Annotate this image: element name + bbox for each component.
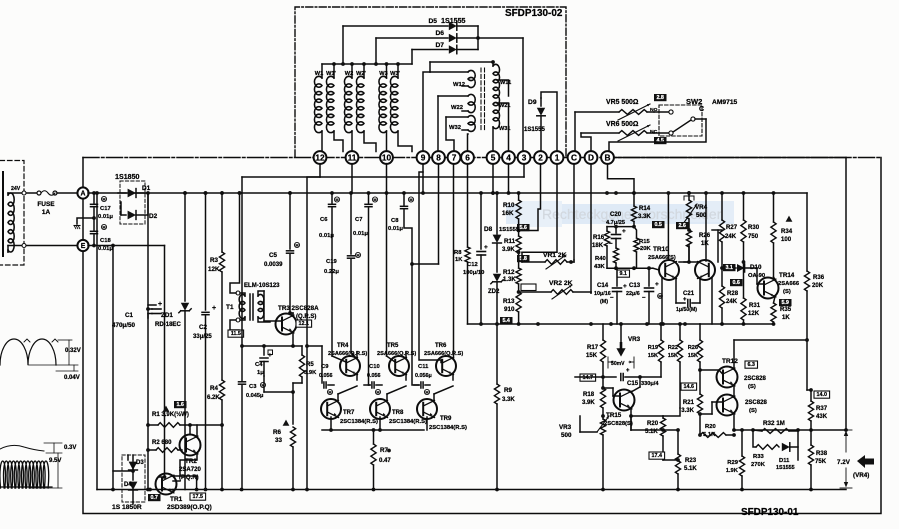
svg-text:2SC1384(R.S): 2SC1384(R.S) <box>389 419 427 425</box>
svg-text:TR4: TR4 <box>337 343 349 349</box>
transistor TR8 2SC1384 <box>370 399 390 419</box>
transistor TR2 2SA720 <box>180 435 201 456</box>
wire terminal 9 branch <box>419 172 441 363</box>
svg-text:M: M <box>328 389 331 394</box>
svg-text:W12: W12 <box>453 82 466 88</box>
wire rail y324 right <box>700 323 774 325</box>
svg-text:R23: R23 <box>685 458 697 464</box>
svg-text:2.8: 2.8 <box>656 95 664 101</box>
svg-text:1K: 1K <box>782 315 790 321</box>
svg-text:3.9K: 3.9K <box>582 400 595 406</box>
svg-text:5.9: 5.9 <box>781 300 789 306</box>
svg-text:75K: 75K <box>815 459 827 465</box>
svg-text:6.2K: 6.2K <box>207 395 220 401</box>
wire R5/C4 bottom to R6 <box>263 376 265 392</box>
diode D2 <box>121 214 126 216</box>
svg-text:+: + <box>622 228 626 235</box>
svg-text:17.5: 17.5 <box>193 494 204 500</box>
svg-text:D8: D8 <box>484 226 493 233</box>
winding W1 <box>321 64 323 78</box>
transformer primary W32 <box>446 116 468 118</box>
svg-text:R29: R29 <box>727 460 738 466</box>
svg-text:+: + <box>212 305 216 312</box>
wire term10 col <box>386 193 388 356</box>
svg-text:R26: R26 <box>688 345 698 351</box>
capacitor C19 0.22u <box>350 193 352 254</box>
svg-text:T1: T1 <box>226 304 234 311</box>
resistor R36 20K <box>806 193 808 271</box>
resistor R8 1K <box>467 164 469 247</box>
resistor R16 18K <box>606 227 608 231</box>
svg-text:R20: R20 <box>647 421 659 427</box>
svg-text:C2: C2 <box>199 324 208 331</box>
svg-text:2SA720: 2SA720 <box>179 467 201 473</box>
svg-text:C1: C1 <box>125 312 134 319</box>
svg-text:R36: R36 <box>813 275 825 281</box>
svg-text:6.3: 6.3 <box>747 362 755 368</box>
svg-text:W3': W3' <box>390 71 400 77</box>
svg-text:TR8: TR8 <box>392 410 404 416</box>
svg-text:R14: R14 <box>639 206 651 212</box>
wire TR3 emitter <box>292 332 294 346</box>
svg-text:0.22μ: 0.22μ <box>324 269 339 275</box>
svg-text:5.1K: 5.1K <box>684 466 697 472</box>
svg-text:R32 1M: R32 1M <box>763 420 785 427</box>
wire emitter rail TR7-9 <box>322 429 424 431</box>
voltage label 5.9 <box>779 299 792 306</box>
svg-text:W11: W11 <box>500 80 511 86</box>
svg-text:W1': W1' <box>326 71 336 77</box>
svg-text:R15: R15 <box>639 239 650 245</box>
svg-text:SFDP130-02: SFDP130-02 <box>505 8 563 19</box>
wire R1 node <box>190 424 222 426</box>
resistor R15 20K <box>634 227 637 238</box>
terminal 6 <box>461 151 474 164</box>
waveform ripple 0.32V <box>0 339 56 365</box>
svg-text:50mV: 50mV <box>611 361 625 367</box>
svg-text:D11: D11 <box>779 458 790 464</box>
transistor TR9 2SC1384 <box>417 399 437 419</box>
svg-text:3.3K: 3.3K <box>502 397 515 403</box>
svg-text:2SD389(O.P.Q): 2SD389(O.P.Q) <box>167 504 212 511</box>
svg-text:D: D <box>588 152 594 162</box>
wire TR3 collector <box>292 313 294 316</box>
transformer primary W12 <box>430 71 468 73</box>
resistor R26 1K <box>686 230 691 247</box>
svg-text:SFDP130-01: SFDP130-01 <box>741 507 799 518</box>
diode box D3 D4 1S1850R <box>122 455 145 502</box>
diode D5 1S1555 <box>343 25 448 27</box>
ground stub <box>77 218 94 224</box>
resistor R6 33 <box>283 420 290 426</box>
wire VR6 feed from D <box>581 133 591 152</box>
svg-text:B: B <box>605 152 611 162</box>
wire TR13 <box>712 401 723 403</box>
svg-text:E: E <box>81 243 86 250</box>
wire center rail y324 <box>468 323 701 325</box>
svg-text:C20: C20 <box>610 212 622 218</box>
wire TR6 legs <box>452 374 454 380</box>
diode D11 1S1555 <box>782 443 790 451</box>
wire D3D4 connect <box>132 502 134 504</box>
external transformer box <box>0 161 24 266</box>
svg-text:VR5 500Ω: VR5 500Ω <box>606 99 639 106</box>
wire winding taps to terminals <box>423 72 430 152</box>
svg-text:R34: R34 <box>781 229 793 235</box>
resistor R7 0.47 <box>371 444 376 465</box>
diode D1 <box>118 192 126 194</box>
svg-text:R12: R12 <box>503 269 515 276</box>
resistor R14 3.3K <box>633 193 635 206</box>
svg-text:C6: C6 <box>320 217 328 223</box>
resistor R10 16K <box>518 193 520 200</box>
wire 14.7 node <box>575 376 603 378</box>
svg-text:1μ: 1μ <box>257 370 264 376</box>
wire terminal 2 drop <box>519 164 541 231</box>
transistor TR11 <box>695 260 715 280</box>
svg-text:15K: 15K <box>586 353 598 359</box>
svg-text:3.9K: 3.9K <box>502 247 515 253</box>
svg-text:0.3V: 0.3V <box>64 445 76 451</box>
svg-text:R30: R30 <box>748 225 760 231</box>
transistor TR7 2SC1384 <box>321 399 341 419</box>
svg-text:R17: R17 <box>587 345 599 351</box>
svg-text:0.6: 0.6 <box>732 280 740 286</box>
svg-text:D5: D5 <box>428 18 437 25</box>
svg-text:1S1555: 1S1555 <box>776 465 795 471</box>
external transformer core <box>2 172 4 256</box>
svg-text:W2': W2' <box>356 71 366 77</box>
svg-text:2SC1384(R.S): 2SC1384(R.S) <box>340 419 378 425</box>
diode D9 1S1555 <box>540 98 542 106</box>
svg-text:20K: 20K <box>640 246 651 252</box>
svg-text:500: 500 <box>561 432 572 439</box>
wire TR15 legs <box>639 377 641 387</box>
svg-text:R3: R3 <box>210 257 219 264</box>
capacitor C17 0.01u <box>93 193 95 203</box>
resistor R11 3.9K <box>518 231 520 237</box>
wire terminal 7 drop <box>453 164 455 351</box>
capacitor C18 0.01u <box>93 218 95 230</box>
svg-text:TR3 2SC828A: TR3 2SC828A <box>278 305 319 312</box>
svg-text:C15: C15 <box>627 381 639 387</box>
terminal B <box>601 151 614 164</box>
voltage label 6.3 <box>745 361 758 368</box>
svg-text:+: + <box>626 368 630 374</box>
svg-text:8: 8 <box>436 152 441 162</box>
wire terminal 8 drop <box>438 164 440 264</box>
svg-text:1S 1850R: 1S 1850R <box>112 504 142 511</box>
svg-text:R21: R21 <box>683 400 695 406</box>
transformer secondary W11 W21 W31 <box>492 62 494 66</box>
capacitor C5 0.0039 <box>288 191 292 195</box>
voltage label 3.1 <box>723 264 736 271</box>
svg-text:R13: R13 <box>503 298 515 305</box>
svg-text:2SC828(S): 2SC828(S) <box>604 421 633 427</box>
svg-text:33: 33 <box>275 437 282 444</box>
voltage label 2.6 <box>676 222 689 229</box>
resistor R12 1.3K <box>516 268 521 284</box>
wire B bus right <box>614 157 846 159</box>
svg-text:+: + <box>158 301 162 308</box>
wire terminal 9 drop <box>422 164 424 193</box>
svg-text:D2: D2 <box>149 213 158 220</box>
svg-text:1K: 1K <box>455 257 463 263</box>
svg-text:C3: C3 <box>249 384 257 390</box>
svg-text:24K: 24K <box>725 234 737 240</box>
svg-text:0.7: 0.7 <box>150 495 158 501</box>
wire TR1 base <box>179 470 181 476</box>
voltage label 17.4 <box>649 452 665 459</box>
terminal 4 <box>502 151 515 164</box>
wire TR4 legs <box>356 374 358 380</box>
capacitor C2 33u/25 <box>204 191 208 195</box>
svg-text:R16: R16 <box>593 235 605 241</box>
svg-text:20K: 20K <box>812 283 824 289</box>
svg-text:R19: R19 <box>648 345 658 351</box>
wire terminal3 drop <box>523 164 525 177</box>
svg-text:C: C <box>571 152 577 162</box>
wire term12 col <box>307 177 320 490</box>
terminal 9 <box>417 151 430 164</box>
wire TR2 collector/emitter <box>189 425 191 434</box>
wire terminal 10 drop <box>386 164 388 193</box>
svg-text:1S1850: 1S1850 <box>115 173 140 181</box>
wire terminal 4 drop <box>508 164 510 193</box>
svg-text:C11: C11 <box>418 364 429 370</box>
resistor R31 12K <box>741 298 746 320</box>
resistor R35 1K <box>771 303 776 322</box>
resistor R19 15K <box>660 324 662 340</box>
svg-text:0.0039: 0.0039 <box>264 262 283 268</box>
svg-text:VR3: VR3 <box>559 424 572 431</box>
svg-text:0.045μ: 0.045μ <box>246 393 264 399</box>
svg-text:910: 910 <box>504 306 515 313</box>
svg-text:C14: C14 <box>597 283 609 289</box>
resistor R28 24K <box>719 286 724 308</box>
svg-text:R10: R10 <box>503 202 515 209</box>
svg-text:1.9K: 1.9K <box>726 468 739 474</box>
svg-text:C4: C4 <box>255 362 263 368</box>
resistor R13 910 <box>516 292 521 312</box>
voltage label 14.6 <box>681 383 697 390</box>
svg-text:–: – <box>610 294 614 301</box>
svg-text:24K: 24K <box>726 299 738 305</box>
svg-text:2SC828: 2SC828 <box>745 400 767 406</box>
svg-text:C17: C17 <box>100 206 111 212</box>
wire terminal 1 drop <box>522 164 557 253</box>
svg-text:TR10: TR10 <box>653 246 669 253</box>
svg-text:R31: R31 <box>749 303 761 309</box>
svg-text:2.6: 2.6 <box>678 223 686 229</box>
wire T1 primary bottom <box>230 320 239 330</box>
svg-text:R38: R38 <box>816 451 828 457</box>
resistor R9 3.3K <box>496 324 498 384</box>
svg-text:7.2V: 7.2V <box>837 459 851 466</box>
svg-text:R40: R40 <box>595 256 606 262</box>
svg-text:5.6: 5.6 <box>519 225 527 231</box>
svg-text:R28: R28 <box>727 291 739 297</box>
svg-text:0.47: 0.47 <box>379 458 391 464</box>
svg-text:R4: R4 <box>210 385 219 392</box>
voltage label 1.6 <box>174 401 187 408</box>
capacitor C15 330u/4 <box>603 376 616 378</box>
voltage label 9.1 <box>617 270 630 277</box>
svg-text:M: M <box>102 196 105 201</box>
capacitor C20 4.7u/25 <box>615 227 617 233</box>
svg-text:1S1555: 1S1555 <box>441 17 466 25</box>
svg-text:270K: 270K <box>751 462 766 468</box>
svg-text:9: 9 <box>421 152 426 162</box>
resistor R22 15K <box>679 324 681 340</box>
svg-text:330μ/4: 330μ/4 <box>641 381 659 387</box>
svg-text:R27: R27 <box>726 225 738 231</box>
winding W2 <box>351 64 353 78</box>
svg-text:22μ/6: 22μ/6 <box>626 291 640 297</box>
capacitor C8 0.01u <box>403 193 405 205</box>
resistor R17 15K <box>602 324 604 340</box>
svg-text:5: 5 <box>491 152 496 162</box>
svg-text:15K: 15K <box>688 353 698 359</box>
svg-text:R22: R22 <box>668 345 678 351</box>
svg-text:(VR4): (VR4) <box>853 472 869 479</box>
voltage label 14.7 <box>580 374 596 381</box>
svg-text:VR6 500Ω: VR6 500Ω <box>606 121 639 128</box>
svg-text:0.01μ: 0.01μ <box>353 231 368 237</box>
svg-text:(S): (S) <box>748 384 756 390</box>
terminal A <box>77 187 88 198</box>
resistor R30 750 <box>743 193 745 220</box>
wire bottom rail <box>97 489 846 491</box>
svg-text:24V: 24V <box>11 186 21 192</box>
svg-text:–: – <box>642 294 646 301</box>
terminal 3 <box>518 151 531 164</box>
svg-text:1: 1 <box>555 152 560 162</box>
svg-text:2: 2 <box>538 152 543 162</box>
svg-text:M: M <box>373 197 376 202</box>
terminal 2 <box>534 151 547 164</box>
svg-text:R20: R20 <box>705 424 716 430</box>
svg-text:6: 6 <box>465 152 470 162</box>
wire D5 drop <box>342 26 344 64</box>
svg-text:+: + <box>683 297 687 303</box>
transformer primary W22 <box>438 95 468 97</box>
diode D7 <box>412 49 448 51</box>
svg-text:12: 12 <box>315 152 325 162</box>
svg-text:43K: 43K <box>594 264 605 270</box>
terminal 11 <box>346 151 359 164</box>
wire main rail +B y193 <box>88 192 807 194</box>
svg-text:TR7: TR7 <box>343 410 355 416</box>
svg-text:R6: R6 <box>273 429 282 436</box>
svg-text:750: 750 <box>748 234 759 240</box>
waveform sine 9.5V <box>0 461 49 488</box>
wire left rail drop <box>96 193 98 490</box>
svg-text:FUSE: FUSE <box>37 201 55 208</box>
svg-text:15K: 15K <box>648 353 658 359</box>
svg-text:C8: C8 <box>391 218 399 224</box>
wire node row y226 <box>607 226 634 228</box>
svg-text:D4: D4 <box>124 482 132 488</box>
svg-text:VR4: VR4 <box>695 204 708 211</box>
svg-text:R8: R8 <box>454 250 462 256</box>
svg-text:18K: 18K <box>592 243 604 249</box>
svg-text:W2: W2 <box>345 71 353 77</box>
wire rail y177 <box>242 176 524 178</box>
resistor R23 5.1K <box>677 430 679 454</box>
wire W22 feed <box>437 96 439 152</box>
resistor R38 75K <box>810 430 812 445</box>
capacitor C7 0.01u <box>368 193 370 203</box>
svg-text:4.7μ/25: 4.7μ/25 <box>606 220 625 226</box>
svg-text:M: M <box>102 224 105 229</box>
svg-text:R1 3.9K(½W): R1 3.9K(½W) <box>152 411 189 418</box>
svg-text:0.056: 0.056 <box>319 373 333 379</box>
svg-text:ZD2: ZD2 <box>488 289 500 295</box>
wire D5-D6-D7 common <box>477 26 479 50</box>
wire D7 drop <box>411 50 413 65</box>
svg-text:VR3: VR3 <box>628 336 641 343</box>
svg-text:9.1: 9.1 <box>619 271 627 277</box>
wire base rail y268 <box>607 267 653 269</box>
measure 7.2V <box>840 429 852 431</box>
wire TR1 emitter col <box>196 476 198 490</box>
wire transformer top <box>430 61 493 63</box>
terminal D <box>585 151 598 164</box>
resistor R5 3.9K <box>299 355 304 377</box>
svg-text:(S): (S) <box>783 289 791 295</box>
svg-text:–: – <box>609 240 613 247</box>
svg-text:R35: R35 <box>780 307 792 313</box>
wire transformer bottom to E <box>7 246 9 253</box>
svg-text:+: + <box>655 281 659 288</box>
voltage label 11.5 <box>228 330 244 337</box>
wire E rail <box>88 245 165 247</box>
svg-text:R18: R18 <box>583 392 595 398</box>
svg-text:C13: C13 <box>629 283 641 289</box>
svg-text:470μ/50: 470μ/50 <box>112 322 135 329</box>
wire SW2 common down <box>609 119 706 151</box>
svg-text:D3: D3 <box>136 460 144 466</box>
svg-text:W1: W1 <box>315 71 323 77</box>
resistor R29 1.9K <box>741 430 743 456</box>
svg-text:0.04V: 0.04V <box>64 375 80 381</box>
svg-text:2SC828: 2SC828 <box>744 376 766 382</box>
wire E column <box>164 246 166 417</box>
external transformer winding 24V <box>8 193 14 252</box>
svg-text:0.056: 0.056 <box>367 373 381 379</box>
svg-text:2SA666: 2SA666 <box>778 281 800 287</box>
resistor R34 100 <box>773 193 775 222</box>
wire D6 drop <box>375 38 377 64</box>
resistor R37 43K <box>810 390 812 401</box>
svg-text:2SC1384(R.S): 2SC1384(R.S) <box>429 425 467 431</box>
wire terminal 5 drop <box>492 164 494 193</box>
svg-text:C12: C12 <box>467 262 478 268</box>
svg-text:D9: D9 <box>528 99 537 106</box>
wire to fuse <box>8 192 36 194</box>
terminal 10 <box>380 151 393 164</box>
wire VR5 feed from C <box>574 112 576 152</box>
svg-text:0.056μ: 0.056μ <box>415 373 432 379</box>
resistor R4 6.2K <box>219 380 224 400</box>
svg-text:R2 680: R2 680 <box>152 440 172 446</box>
svg-text:1.3K: 1.3K <box>503 277 516 283</box>
arrow VR4 ref <box>857 455 874 468</box>
svg-text:11.5: 11.5 <box>231 331 241 337</box>
svg-text:R9: R9 <box>504 387 513 394</box>
svg-text:AM9715: AM9715 <box>712 99 738 106</box>
